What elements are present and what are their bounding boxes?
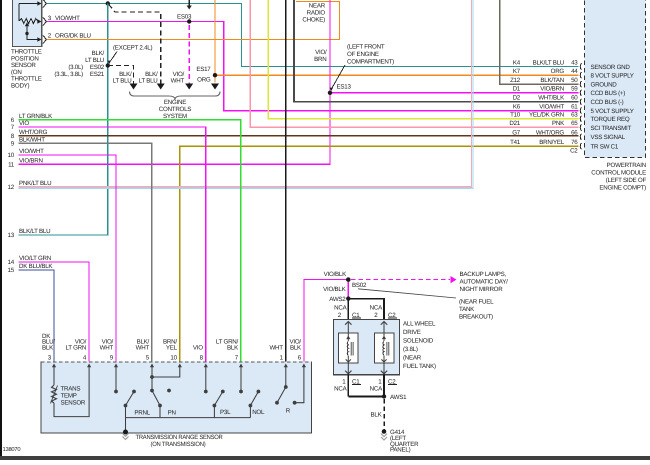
- svg-text:60: 60: [571, 95, 578, 102]
- svg-text:VSS SIGNAL: VSS SIGNAL: [591, 134, 626, 141]
- svg-text:WHT: WHT: [136, 344, 150, 351]
- node ES13: [328, 91, 332, 95]
- svg-text:WHT: WHT: [171, 78, 185, 85]
- svg-text:TR SW C1: TR SW C1: [591, 144, 619, 151]
- transmission range sensor box: [41, 362, 312, 433]
- svg-text:LT GRN/BLK: LT GRN/BLK: [19, 113, 53, 120]
- svg-text:WHT: WHT: [100, 344, 114, 351]
- TRS switch R: [277, 387, 286, 403]
- svg-text:LT BLU: LT BLU: [113, 78, 132, 85]
- svg-text:PNK/LT BLU: PNK/LT BLU: [19, 180, 51, 187]
- svg-text:ES03: ES03: [177, 14, 192, 21]
- TPS pin 3 connector: [37, 19, 41, 24]
- TRS internal: trans temp sensor: [53, 366, 55, 385]
- svg-text:BLK/LT BLU: BLK/LT BLU: [533, 59, 564, 66]
- wire DK BLU/BLK row 15 to TRS pin3: [19, 270, 55, 362]
- dashed stub 3: VIO/WHT from ES03: [188, 25, 190, 84]
- svg-text:15: 15: [8, 267, 15, 274]
- solenoid C1 coil: [345, 322, 351, 325]
- svg-text:66: 66: [571, 130, 578, 137]
- TRS internal: pin9 lead: [115, 366, 117, 392]
- svg-text:NEAR: NEAR: [309, 3, 326, 10]
- svg-text:VIO/: VIO/: [315, 49, 327, 56]
- svg-text:BS02: BS02: [352, 282, 367, 289]
- TRS ground stem: [125, 418, 127, 432]
- wire VIO/BRN: ES13 to PCM D1: [330, 92, 579, 94]
- svg-text:T41: T41: [510, 139, 521, 146]
- svg-text:BLK/TAN: BLK/TAN: [540, 77, 564, 84]
- wire BLK dashed to ground: [383, 399, 385, 430]
- wire BLK/TAN: from top to PCM Z12: [500, 0, 579, 84]
- svg-text:COMPARTMENT): COMPARTMENT): [347, 59, 394, 66]
- svg-text:BODY): BODY): [11, 83, 30, 90]
- TRS switch PRNL: [132, 390, 136, 394]
- svg-text:11: 11: [8, 161, 15, 168]
- svg-text:(NEAR FUEL: (NEAR FUEL: [459, 299, 494, 306]
- svg-text:ES13: ES13: [337, 84, 352, 91]
- TRS internal: pin7 lead: [240, 366, 242, 392]
- brace engine controls system: [130, 92, 221, 100]
- svg-text:POWERTRAIN: POWERTRAIN: [607, 162, 646, 169]
- svg-text:VIO/WHT: VIO/WHT: [539, 104, 564, 111]
- svg-text:BLK: BLK: [290, 344, 302, 351]
- powertrain control module box U-PCM: [585, 0, 646, 158]
- svg-text:DK BLU/BLK: DK BLU/BLK: [19, 263, 53, 270]
- wire PNK/LT BLU row 12 up to top (pink + lt blue two-tone): [19, 0, 473, 188]
- svg-text:VIO/BRN: VIO/BRN: [19, 157, 43, 164]
- svg-text:VIO/LT GRN: VIO/LT GRN: [19, 255, 51, 262]
- svg-text:(EXCEPT 2.4L): (EXCEPT 2.4L): [113, 45, 152, 52]
- wire YEL/DK GRN: from top to PCM T10: [268, 0, 578, 119]
- node AWS2: [346, 296, 350, 300]
- bottom bar: [0, 456, 650, 460]
- svg-text:VIO: VIO: [19, 120, 29, 127]
- svg-text:14: 14: [8, 259, 15, 266]
- svg-text:12: 12: [8, 184, 15, 191]
- wire VIO/BLK: TRS pin6 up to BS02: [304, 280, 348, 362]
- svg-text:SCI TRANSMIT: SCI TRANSMIT: [591, 125, 632, 132]
- wire WHT/ORG row 8 to PCM G7: [19, 135, 579, 137]
- svg-text:TRANSMISSION RANGE SENSOR: TRANSMISSION RANGE SENSOR: [136, 434, 224, 441]
- svg-text:SENSOR: SENSOR: [61, 400, 86, 407]
- svg-text:BRN/YEL: BRN/YEL: [539, 139, 565, 146]
- svg-text:VIO/BLK: VIO/BLK: [324, 271, 347, 278]
- svg-text:C2: C2: [570, 148, 578, 155]
- svg-text:WHT: WHT: [269, 344, 283, 351]
- svg-text:K7: K7: [513, 68, 521, 75]
- wire BLK/WHT row 9 to TRS pin5: [19, 143, 152, 362]
- svg-text:ES21: ES21: [90, 71, 105, 78]
- throttle position sensor box: [13, 0, 42, 46]
- svg-text:ES17: ES17: [196, 66, 211, 73]
- wire WHT: TRS pin1 to top: [285, 0, 287, 362]
- TRS switch PN: [152, 391, 160, 406]
- svg-text:CHOKE): CHOKE): [302, 17, 325, 24]
- TRS internal: pin6 lead: [295, 366, 304, 403]
- svg-text:VIO/BLK: VIO/BLK: [323, 286, 346, 293]
- svg-text:BLK: BLK: [42, 344, 54, 351]
- svg-text:NCA: NCA: [334, 305, 347, 312]
- potentiometer resistor inside TPS: [18, 4, 20, 22]
- svg-text:LT BLU: LT BLU: [139, 78, 158, 85]
- svg-text:D1: D1: [513, 86, 521, 93]
- svg-text:LT BLU: LT BLU: [85, 57, 104, 64]
- svg-text:YEL: YEL: [166, 344, 178, 351]
- svg-text:BLK: BLK: [227, 344, 239, 351]
- svg-text:Z12: Z12: [510, 77, 521, 84]
- solenoid C2 coil: [381, 322, 387, 325]
- wire ORG ES17 vertical from top: [214, 0, 216, 83]
- node ES02/ES21 junction: [106, 63, 110, 67]
- node: teal junction at top: [106, 1, 110, 5]
- svg-text:NCA: NCA: [370, 386, 383, 393]
- svg-text:BACKUP LAMPS,: BACKUP LAMPS,: [460, 271, 507, 278]
- TRS internal: pin8 lead: [205, 366, 207, 392]
- wire VIO/LT GRN row 14 to TRS pin4: [19, 262, 90, 362]
- wire ORG/DK BLU: TPS pin2 up to radio choke: [47, 2, 340, 40]
- TPS pin 2 connector: [37, 37, 41, 42]
- wire VIO/WHT: TPS pin3 to PCM K6: [47, 22, 579, 111]
- svg-text:61: 61: [571, 104, 578, 111]
- svg-text:AWS1: AWS1: [390, 394, 407, 401]
- wire VIO/BLK BS02 to AWS2: [347, 280, 349, 299]
- svg-text:(3.0L): (3.0L): [68, 64, 83, 71]
- wire WHT/BLK: from top to PCM D2: [294, 0, 579, 102]
- svg-text:WHT/BLK: WHT/BLK: [538, 95, 565, 102]
- svg-text:NIGHT MIRROR: NIGHT MIRROR: [460, 286, 504, 293]
- solenoid pin 1 C2: [383, 375, 385, 397]
- svg-text:G7: G7: [512, 130, 521, 137]
- svg-text:CCD BUS (-): CCD BUS (-): [591, 99, 624, 106]
- svg-text:5 VOLT SUPPLY: 5 VOLT SUPPLY: [591, 108, 634, 115]
- wire PNK: from top to PCM D21: [250, 0, 578, 127]
- svg-text:10: 10: [8, 152, 15, 159]
- svg-text:ALL WHEEL: ALL WHEEL: [403, 321, 436, 328]
- TRS ground bus: [126, 417, 251, 419]
- left border bar: [0, 0, 2, 460]
- svg-text:NCA: NCA: [370, 305, 383, 312]
- svg-text:CCD BUS (+): CCD BUS (+): [591, 90, 626, 97]
- svg-text:TEMP: TEMP: [61, 393, 77, 400]
- wire C1 bottom to AWS1: [348, 395, 384, 397]
- svg-text:K4: K4: [513, 59, 521, 66]
- dashed stub 1: BLK/LT BLU to engine controls: [108, 66, 134, 85]
- wire ORG: ES17 to PCM K7: [215, 74, 579, 76]
- svg-text:CONTROLS: CONTROLS: [159, 106, 192, 113]
- stub 4: ORG from ES17: [214, 78, 216, 83]
- dashed wire VIO/BLK to backup lamps: [351, 279, 450, 281]
- svg-text:VIO/WHT: VIO/WHT: [55, 15, 80, 22]
- svg-text:8 VOLT SUPPLY: 8 VOLT SUPPLY: [591, 73, 634, 80]
- svg-text:VIO/WHT: VIO/WHT: [19, 148, 44, 155]
- svg-text:P3L: P3L: [220, 409, 231, 416]
- svg-text:CONTROL MODULE: CONTROL MODULE: [591, 170, 646, 177]
- TRS internal: pin1 lead: [285, 366, 287, 387]
- svg-text:ES02: ES02: [90, 64, 105, 71]
- node ES03: [187, 19, 191, 23]
- ground G414: [382, 429, 387, 434]
- svg-text:PANEL): PANEL): [390, 447, 411, 454]
- TRS switch NOL: [257, 390, 261, 394]
- svg-text:ORG/DK BLU: ORG/DK BLU: [55, 33, 91, 40]
- svg-text:(LEFT SIDE OF: (LEFT SIDE OF: [606, 177, 647, 184]
- node AWS1: [382, 394, 386, 398]
- svg-text:BLK/LT BLU: BLK/LT BLU: [19, 228, 50, 235]
- svg-text:ORG: ORG: [551, 68, 565, 75]
- svg-text:44: 44: [571, 68, 578, 75]
- svg-text:LT GRN: LT GRN: [65, 344, 86, 351]
- svg-text:SENSOR GND: SENSOR GND: [591, 64, 631, 71]
- svg-text:GROUND: GROUND: [591, 82, 618, 89]
- svg-text:PN: PN: [168, 409, 176, 416]
- all wheel drive solenoid box L1: [334, 319, 400, 374]
- svg-text:VIO: VIO: [193, 344, 203, 351]
- node ES17: [213, 73, 217, 77]
- dashed stub 2: BLK/LT BLU from teal top junction: [109, 5, 161, 85]
- svg-text:ENGINE COMPT): ENGINE COMPT): [599, 185, 646, 192]
- svg-text:(NEAR: (NEAR: [403, 355, 422, 362]
- svg-text:WHT/ORG: WHT/ORG: [536, 130, 565, 137]
- wire VIO row 7 to TRS pin8: [19, 127, 206, 362]
- svg-text:AWS2: AWS2: [329, 296, 346, 303]
- svg-text:BLK/: BLK/: [92, 50, 105, 57]
- svg-text:(3.8L): (3.8L): [403, 346, 418, 353]
- TRS switch P3L: [221, 390, 225, 394]
- svg-text:AUTOMATIC DAY/: AUTOMATIC DAY/: [460, 279, 509, 286]
- svg-text:59: 59: [571, 86, 578, 93]
- TPS pin 1 connector: [37, 1, 41, 6]
- svg-text:WHT/ORG: WHT/ORG: [19, 129, 48, 136]
- svg-text:138070: 138070: [3, 446, 21, 453]
- svg-text:BLK/WHT: BLK/WHT: [19, 136, 45, 143]
- svg-text:10: 10: [170, 354, 177, 361]
- svg-text:FUEL TANK): FUEL TANK): [403, 363, 436, 370]
- svg-text:65: 65: [571, 120, 578, 127]
- svg-text:RADIO: RADIO: [307, 10, 326, 17]
- svg-text:OF ENGINE: OF ENGINE: [347, 51, 379, 58]
- svg-text:YEL/DK GRN: YEL/DK GRN: [529, 112, 564, 119]
- svg-text:(ON TRANSMISSION): (ON TRANSMISSION): [151, 441, 206, 448]
- svg-text:SYSTEM: SYSTEM: [163, 113, 187, 120]
- svg-text:NOL: NOL: [252, 409, 265, 416]
- svg-text:T10: T10: [510, 112, 521, 119]
- svg-text:BREAKOUT): BREAKOUT): [459, 314, 493, 321]
- svg-text:(3.3L, 3.8L): (3.3L, 3.8L): [54, 71, 83, 78]
- wire BLK/LT BLU sensor ground: TPS pin1 to PCM K4: [47, 4, 579, 67]
- svg-text:PRNL: PRNL: [134, 409, 150, 416]
- svg-text:(LEFT FRONT: (LEFT FRONT: [347, 44, 385, 51]
- svg-text:63: 63: [571, 112, 578, 119]
- svg-text:D21: D21: [509, 120, 520, 127]
- wire BLK/LT BLU branch down to row 13: [19, 4, 108, 236]
- svg-text:50: 50: [571, 77, 578, 84]
- svg-text:ENGINE: ENGINE: [164, 99, 186, 106]
- svg-text:D2: D2: [513, 95, 521, 102]
- svg-text:PNK: PNK: [552, 120, 565, 127]
- svg-text:43: 43: [571, 59, 578, 66]
- svg-text:13: 13: [8, 232, 15, 239]
- svg-text:VIO/BRN: VIO/BRN: [540, 86, 564, 93]
- svg-text:TORQUE REQ: TORQUE REQ: [591, 116, 630, 123]
- svg-text:TRANS: TRANS: [61, 386, 81, 393]
- wire VIO/WHT row 10 to TRS pin9: [19, 155, 116, 362]
- svg-text:K6: K6: [513, 104, 521, 111]
- svg-text:ORG: ORG: [197, 77, 211, 84]
- wire LT GRN/BLK row 6 to TRS pin7: [19, 120, 241, 362]
- svg-text:SOLENOID: SOLENOID: [403, 338, 434, 345]
- svg-text:DRIVE: DRIVE: [403, 329, 421, 336]
- wire BRN/YEL: TRS pin10 up and right to PCM T41: [180, 146, 579, 362]
- node BS02: [346, 277, 350, 281]
- TPS wiper arm: [25, 22, 29, 26]
- wire AWS2 to solenoid pins: [347, 299, 349, 320]
- solenoid pin 1 C1: [347, 375, 349, 397]
- wire from top into ES03: [188, 0, 190, 7]
- svg-text:76: 76: [571, 139, 578, 146]
- svg-text:TANK: TANK: [459, 306, 475, 313]
- callout line near fuel tank breakout: [358, 289, 456, 298]
- wire VIO/BRN: from top through ES13 down to row 11: [19, 0, 331, 164]
- TRS internal: pin5 lead + jumper to pin10: [151, 366, 153, 391]
- svg-text:BRN: BRN: [314, 56, 326, 63]
- svg-text:BLK: BLK: [371, 412, 383, 419]
- svg-text:NCA: NCA: [334, 386, 347, 393]
